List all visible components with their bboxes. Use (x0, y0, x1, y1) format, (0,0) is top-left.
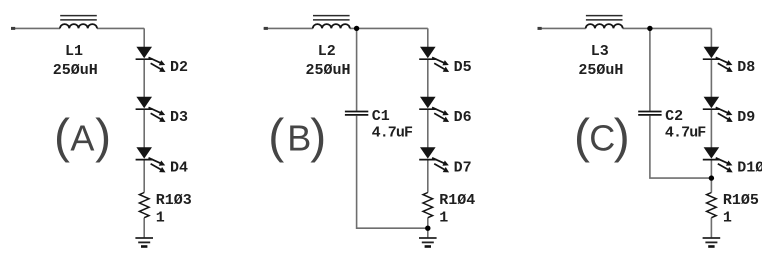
svg-text:L2: L2 (318, 43, 336, 60)
svg-text:D4: D4 (170, 160, 188, 177)
svg-text:D3: D3 (170, 109, 188, 126)
svg-text:L1: L1 (65, 43, 83, 60)
svg-text:4.7uF: 4.7uF (372, 124, 413, 141)
svg-text:C1: C1 (372, 108, 390, 125)
svg-text:25ØuH: 25ØuH (305, 62, 350, 79)
svg-text:D1Ø: D1Ø (737, 160, 762, 177)
svg-text:1: 1 (156, 210, 165, 227)
svg-text:D6: D6 (454, 109, 472, 126)
svg-text:R1Ø4: R1Ø4 (439, 192, 475, 209)
svg-text:B: B (287, 117, 311, 158)
svg-text:25ØuH: 25ØuH (578, 62, 623, 79)
svg-text:R1Ø3: R1Ø3 (156, 192, 192, 209)
svg-text:(: ( (54, 110, 70, 163)
svg-text:): ) (614, 110, 630, 163)
svg-text:): ) (310, 110, 326, 163)
svg-text:L3: L3 (591, 43, 609, 60)
svg-text:1: 1 (723, 210, 732, 227)
svg-text:C: C (589, 117, 615, 158)
svg-text:1: 1 (439, 210, 448, 227)
svg-text:(: ( (268, 110, 284, 163)
svg-text:): ) (95, 110, 111, 163)
svg-text:R1Ø5: R1Ø5 (723, 192, 759, 209)
svg-text:D9: D9 (737, 109, 755, 126)
svg-text:D2: D2 (170, 59, 188, 76)
svg-text:D8: D8 (737, 59, 755, 76)
svg-text:(: ( (574, 110, 590, 163)
svg-text:A: A (70, 117, 94, 158)
svg-text:D5: D5 (454, 59, 472, 76)
svg-text:4.7uF: 4.7uF (665, 124, 706, 141)
svg-text:D7: D7 (454, 160, 472, 177)
svg-text:C2: C2 (665, 108, 683, 125)
svg-text:25ØuH: 25ØuH (53, 62, 98, 79)
